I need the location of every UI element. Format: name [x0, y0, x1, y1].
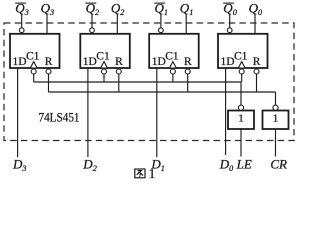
- svg-text:CR: CR: [270, 156, 287, 171]
- svg-text:1D: 1D: [221, 56, 235, 68]
- svg-text:1D: 1D: [83, 56, 97, 68]
- svg-text:74LS451: 74LS451: [39, 110, 80, 124]
- svg-text:R: R: [45, 56, 53, 68]
- svg-text:C1: C1: [165, 51, 179, 63]
- svg-text:C1: C1: [26, 51, 40, 63]
- svg-text:R: R: [115, 56, 123, 68]
- svg-text:1: 1: [238, 112, 244, 124]
- svg-text:R: R: [184, 56, 192, 68]
- svg-text:LE: LE: [236, 156, 252, 171]
- svg-text:C1: C1: [96, 51, 110, 63]
- svg-text:C1: C1: [234, 51, 248, 63]
- svg-text:1: 1: [149, 166, 156, 179]
- svg-text:1: 1: [273, 112, 279, 124]
- svg-text:1D: 1D: [152, 56, 166, 68]
- svg-text:1D: 1D: [13, 56, 27, 68]
- svg-text:R: R: [253, 56, 261, 68]
